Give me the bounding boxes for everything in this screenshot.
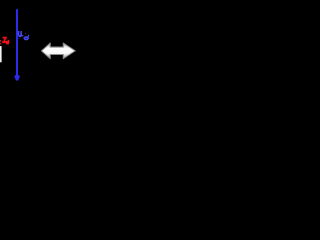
red bottom bar [2,41,9,43]
upsilon tail curl [21,34,23,36]
wall border line (black, at left) [3,0,4,62]
blue arrowhead (downward) [15,75,20,81]
phi ascender tip speck [24,33,27,34]
phi center hole [25,38,26,39]
red edge dot 2 [0,43,1,44]
red label fragment (cut-off at left edge) [0,37,9,45]
red stem [4,38,5,41]
background [0,0,90,90]
blue label upsilon (v) [18,31,23,36]
stray speck below bowl [18,37,21,40]
blue subscript phi [19,33,29,41]
upsilon right stem [20,31,22,34]
red tail [6,43,9,44]
upsilon serif right [21,31,22,33]
red edge dot 1 [0,40,1,42]
phi ascender stroke [28,35,29,38]
wire: blue vertical line [16,9,18,76]
red top-bar droop [5,38,7,39]
upsilon serif left [18,31,19,33]
phi loop (near solid) [24,36,29,40]
upsilon left stem [19,31,22,36]
red right riser [8,40,10,41]
red top bar [3,37,7,39]
